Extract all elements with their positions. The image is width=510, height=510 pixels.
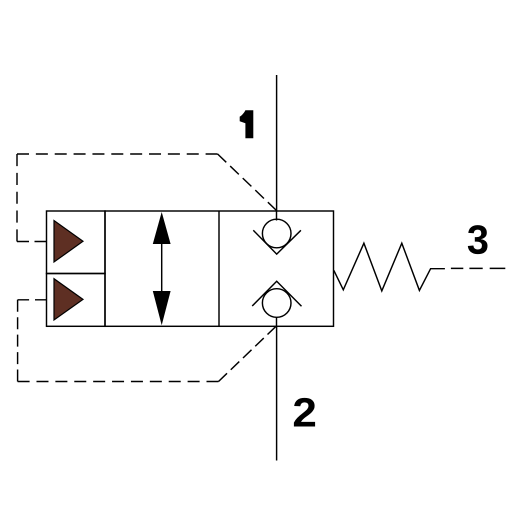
pilot triangle upper <box>54 221 83 263</box>
pilot line upper, diagonal segment (dashed) <box>218 154 277 211</box>
pilot box upper <box>47 211 106 274</box>
check valve bottom ball <box>262 289 291 318</box>
valve body outer rectangle <box>105 211 334 326</box>
pilot line lower, diagonal segment (dashed) <box>219 326 277 381</box>
pilot line lower, bottom horizontal segment (dashed) <box>18 381 219 383</box>
port line 3 dashed <box>451 267 505 269</box>
port label 2 <box>294 398 315 427</box>
pilot line upper, left vertical segment (dashed) <box>16 154 18 242</box>
pilot line lower, left vertical segment (dashed) <box>17 300 19 382</box>
port label 3 <box>468 225 488 254</box>
check valve bottom seat V <box>252 281 301 306</box>
valve body section divider <box>218 211 220 326</box>
check valve bottom stub <box>276 317 278 326</box>
pilot box lower <box>47 274 106 327</box>
port line 1 (vertical line to top port) <box>276 75 278 211</box>
check valve top stub <box>276 211 278 221</box>
port line 2 (vertical line to bottom port) <box>276 326 278 460</box>
double arrow head up <box>153 212 171 244</box>
check valve top seat V <box>253 230 301 254</box>
pilot line upper, connector segment (dashed) <box>17 241 47 243</box>
double arrow head down <box>153 291 171 325</box>
pilot line lower, connector segment (dashed) <box>18 299 47 301</box>
pilot line upper, top horizontal segment (dashed) <box>17 153 218 155</box>
check valve top ball <box>262 219 291 248</box>
port label 1 <box>240 110 254 138</box>
pilot triangle lower <box>54 279 83 320</box>
spring <box>334 243 445 291</box>
double arrow shaft <box>161 240 163 295</box>
